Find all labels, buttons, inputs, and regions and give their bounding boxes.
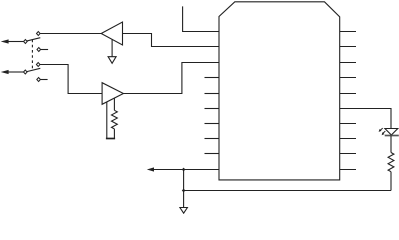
wire top stub to U1 pin 1 — [183, 6, 219, 31]
U1 right pin 3 stub — [340, 62, 356, 64]
junction node B — [182, 189, 186, 193]
op-amp buffer B (right-pointing triangle) — [102, 83, 123, 105]
LED D1 light arrow 2 — [382, 131, 385, 134]
wire U1 right pin 6 to LED D1 — [340, 109, 391, 129]
switch S2 throw 2 terminal — [37, 78, 41, 82]
wire strap left of resistor R1 — [106, 102, 108, 139]
switch S2 blade — [25, 68, 40, 72]
wire U1 left pin 10 — [153, 169, 219, 171]
U1 right pin 9 stub — [340, 153, 356, 155]
switch gang link (dashed) — [31, 40, 33, 70]
wire node A down to ground — [183, 170, 185, 208]
U1 right pin 2 stub — [340, 46, 356, 48]
U1 right pin 1 stub — [340, 31, 356, 33]
connector arrow J2 (lower left) — [1, 70, 9, 74]
switch S1 throw 2 stub — [41, 49, 49, 51]
U1 left pin 6 stub — [205, 108, 220, 110]
resistor R1 bottom bar — [106, 138, 115, 140]
wire switch S2 to buffer B input — [40, 65, 102, 94]
U1 right pin 10 stub — [340, 169, 356, 171]
resistor R1 top lead — [113, 98, 115, 110]
resistor R1 bottom lead — [113, 129, 115, 139]
ground arrow under buffer A — [111, 39, 113, 57]
U1 left pin 7 stub — [205, 123, 220, 125]
switch S2 throw 2 stub — [40, 79, 47, 81]
wire bottom rail node B to LED branch — [184, 190, 391, 192]
ground arrow (bottom) — [180, 208, 188, 214]
U1 left pin 5 stub — [205, 93, 220, 95]
switch S2 pole terminal — [24, 70, 28, 74]
U1 left pin 4 stub — [205, 77, 220, 79]
LED D1 cathode bar — [385, 135, 399, 137]
LED D1 triangle — [385, 129, 398, 136]
switch S1 throw 1 terminal — [37, 32, 41, 36]
U1 left pin 9 stub — [205, 153, 220, 155]
resistor R2 zigzag — [388, 153, 394, 172]
switch S2 throw 1 terminal — [36, 63, 40, 67]
U1 left pin 8 stub — [205, 138, 220, 140]
wire buffer B output to U1 pin 3 — [123, 63, 219, 94]
U1 right pin 5 stub — [340, 93, 356, 95]
switch S1 blade — [25, 38, 40, 42]
wire LED D1 to resistor R2 — [390, 136, 392, 153]
switch S1 throw 2 terminal — [37, 48, 41, 52]
wire buffer A apex to switch S1 — [40, 33, 101, 35]
U1 right pin 4 stub — [340, 77, 356, 79]
op-amp buffer A (left-pointing triangle) — [101, 22, 122, 45]
junction node A — [182, 168, 186, 172]
wire U1 pin 2 from buffer A base — [123, 34, 220, 47]
U1 right pin 8 stub — [340, 138, 356, 140]
resistor R1 zigzag — [112, 110, 118, 129]
resistor R2 bottom lead to bottom rail — [390, 172, 392, 191]
switch S1 pole terminal — [24, 40, 28, 44]
connector arrow J1 (upper left) — [1, 39, 9, 43]
connector arrow J3 on U1 left pin 10 — [147, 167, 154, 171]
IC U1 body outline — [219, 2, 340, 180]
U1 right pin 7 stub — [340, 123, 356, 125]
LED D1 light arrow 1 — [380, 128, 383, 131]
